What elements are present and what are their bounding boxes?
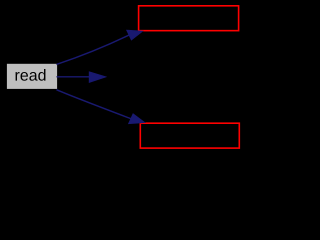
edge read -> bottom node (57, 90, 145, 124)
node read (current function, grey filled) (7, 64, 57, 89)
node truncated bottom (red box) (140, 123, 239, 148)
node truncated top (red box) (139, 6, 239, 31)
edge read -> middle (hidden node) (57, 72, 106, 82)
edge read -> top node (57, 30, 143, 64)
